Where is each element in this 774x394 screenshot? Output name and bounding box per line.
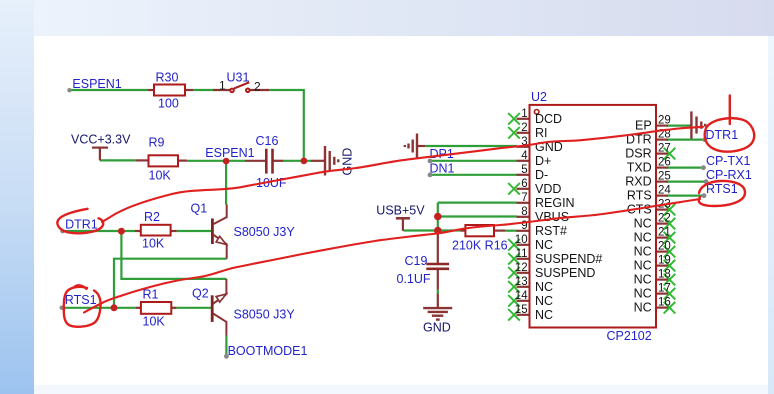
svg-text:1: 1 [521,108,527,120]
svg-text:DTR1: DTR1 [65,217,98,231]
svg-text:RTS1: RTS1 [706,182,738,196]
svg-text:29: 29 [658,115,671,127]
svg-text:D+: D+ [535,154,551,168]
svg-text:NC: NC [634,231,652,245]
svg-text:CP-RX1: CP-RX1 [706,168,752,182]
svg-text:27: 27 [658,143,671,155]
svg-text:D-: D- [535,168,548,182]
svg-text:20: 20 [658,241,671,253]
svg-text:NC: NC [535,294,553,308]
svg-text:NC: NC [634,259,652,273]
svg-text:11: 11 [516,248,528,260]
svg-text:R2: R2 [144,210,160,224]
svg-text:C16: C16 [256,134,279,148]
svg-text:26: 26 [658,157,671,169]
svg-text:REGIN: REGIN [535,196,575,210]
svg-text:NC: NC [535,308,553,322]
svg-text:U2: U2 [531,90,547,104]
svg-text:6: 6 [521,178,527,190]
svg-text:18: 18 [658,269,671,281]
svg-text:BOOTMODE1: BOOTMODE1 [228,344,308,358]
svg-text:21: 21 [658,227,671,239]
svg-text:NC: NC [634,301,652,315]
svg-text:RXD: RXD [625,175,651,189]
svg-text:Q2: Q2 [192,287,209,301]
svg-text:DSR: DSR [625,147,651,161]
svg-text:NC: NC [634,245,652,259]
svg-text:14: 14 [515,290,528,302]
svg-text:ESPEN1: ESPEN1 [205,146,254,160]
svg-text:GND: GND [341,148,355,176]
svg-text:2: 2 [521,122,527,134]
svg-text:RTS1: RTS1 [65,293,97,307]
svg-text:NC: NC [535,280,553,294]
svg-text:13: 13 [515,276,528,288]
svg-text:19: 19 [658,255,671,267]
svg-text:NC: NC [634,217,652,231]
svg-text:R30: R30 [156,71,179,85]
svg-text:17: 17 [658,283,671,295]
svg-text:NC: NC [634,287,652,301]
svg-text:0.1UF: 0.1UF [397,272,431,286]
svg-text:RTS: RTS [627,189,652,203]
svg-text:4: 4 [521,150,528,162]
svg-text:S8050 J3Y: S8050 J3Y [234,308,296,322]
svg-text:GND: GND [423,321,451,335]
svg-text:VCC+3.3V: VCC+3.3V [71,133,131,147]
svg-text:Q1: Q1 [191,202,208,216]
svg-text:USB+5V: USB+5V [376,204,425,218]
svg-text:SUSPEND#: SUSPEND# [535,252,602,266]
svg-text:RI: RI [535,126,548,140]
svg-text:2: 2 [254,80,261,94]
svg-text:7: 7 [521,192,527,204]
svg-text:25: 25 [658,171,671,183]
svg-text:15: 15 [515,304,528,316]
svg-text:DCD: DCD [535,112,562,126]
svg-text:R9: R9 [149,135,165,149]
svg-text:RST#: RST# [535,224,567,238]
svg-text:S8050 J3Y: S8050 J3Y [234,225,296,239]
svg-text:12: 12 [515,262,528,274]
svg-text:CP-TX1: CP-TX1 [706,154,751,168]
svg-text:100: 100 [158,97,179,111]
svg-text:24: 24 [658,185,671,197]
svg-text:TXD: TXD [627,161,652,175]
svg-text:EP: EP [635,119,652,133]
svg-text:10: 10 [515,234,528,246]
svg-text:210K R16: 210K R16 [452,239,508,253]
svg-text:SUSPEND: SUSPEND [535,266,595,280]
svg-text:VDD: VDD [535,182,561,196]
svg-text:R1: R1 [143,288,159,302]
svg-text:DTR1: DTR1 [706,128,739,142]
svg-text:CP2102: CP2102 [607,329,652,343]
svg-text:U31: U31 [227,71,250,85]
svg-text:NC: NC [634,273,652,287]
svg-text:22: 22 [658,213,671,225]
svg-text:NC: NC [535,238,553,252]
svg-text:10K: 10K [142,237,165,251]
svg-text:10K: 10K [143,315,166,329]
svg-text:C19: C19 [405,254,428,268]
svg-text:DN1: DN1 [430,161,455,175]
svg-text:16: 16 [658,297,671,309]
svg-text:ESPEN1: ESPEN1 [72,77,121,91]
svg-text:10K: 10K [149,169,172,183]
svg-text:5: 5 [521,164,527,176]
svg-text:8: 8 [521,206,527,218]
svg-text:1: 1 [219,79,226,93]
